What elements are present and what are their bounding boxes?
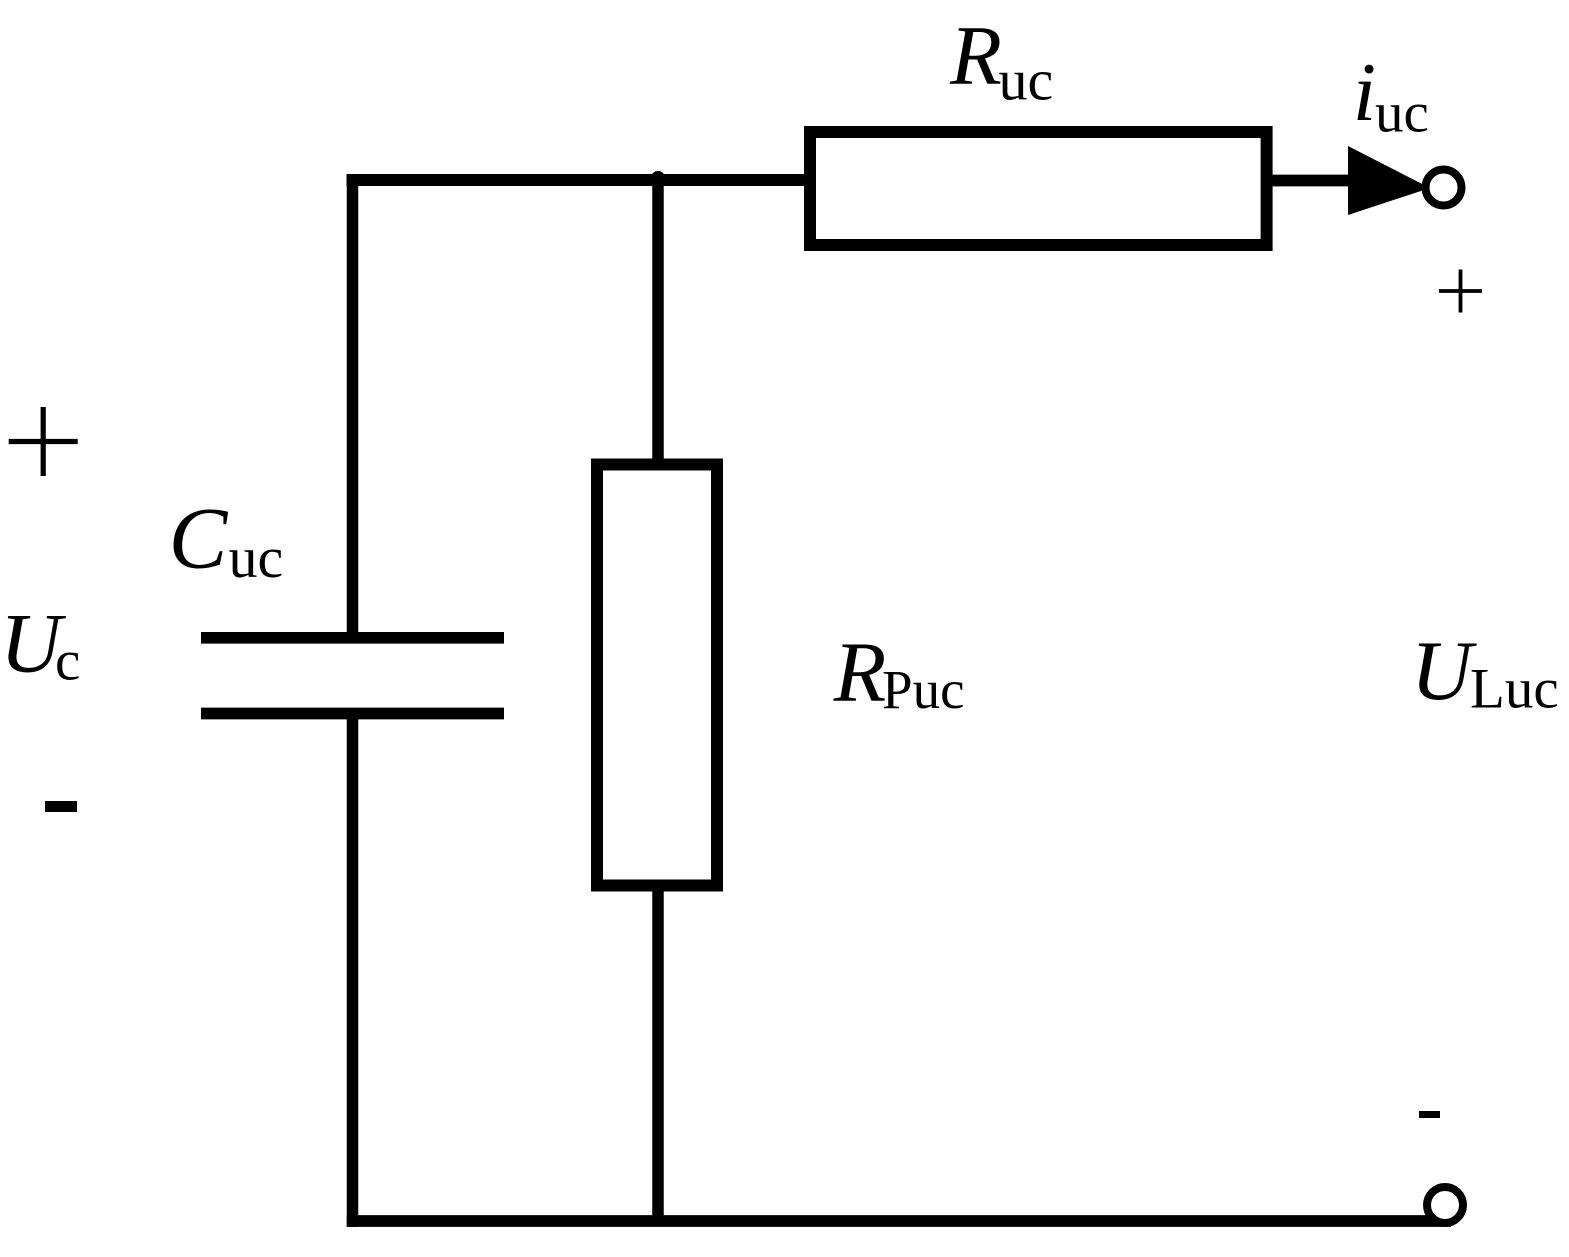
minus sign right — [1419, 1111, 1440, 1118]
plus sign left — [9, 407, 78, 476]
svg-text:C: C — [169, 490, 229, 587]
svg-text:uc: uc — [999, 48, 1054, 113]
wire bottom horizontal — [347, 1215, 1451, 1227]
svg-text:i: i — [1353, 46, 1376, 139]
svg-text:R: R — [949, 9, 1002, 103]
arrow current direction iuc — [1348, 146, 1430, 215]
plus sign right — [1439, 270, 1482, 313]
svg-text:R: R — [833, 624, 887, 720]
svg-text:U: U — [1411, 624, 1477, 718]
svg-text:uc: uc — [229, 525, 284, 590]
wire left vertical lower — [347, 714, 359, 1227]
wire left vertical upper — [347, 174, 359, 640]
capacitor Cuc bottom plate — [201, 708, 504, 720]
svg-text:uc: uc — [1375, 82, 1429, 145]
svg-text:Luc: Luc — [1470, 658, 1559, 721]
terminal circle bottom right — [1427, 1187, 1463, 1223]
wire middle vertical lower — [652, 884, 664, 1221]
capacitor Cuc top plate — [201, 632, 504, 644]
node junction top — [651, 171, 665, 185]
terminal circle top right — [1426, 170, 1462, 206]
resistor Ruc body — [810, 132, 1267, 245]
svg-text:Puc: Puc — [882, 659, 965, 720]
minus sign left — [45, 801, 77, 812]
svg-text:c: c — [55, 629, 80, 692]
wire resistor Ruc to arrow — [1266, 175, 1352, 187]
resistor RPuc body — [597, 465, 717, 886]
wire middle vertical upper — [652, 174, 664, 467]
wire top horizontal — [347, 174, 813, 186]
